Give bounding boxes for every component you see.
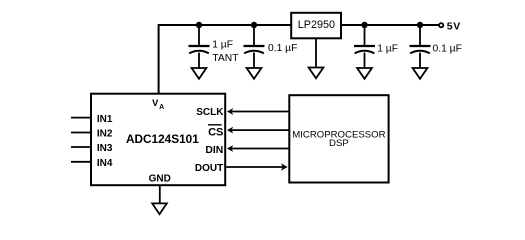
svg-text:IN2: IN2 [97,129,113,140]
svg-text:TANT: TANT [212,53,239,64]
svg-text:0.1 µF: 0.1 µF [433,43,462,54]
svg-text:ADC124S101: ADC124S101 [126,132,199,146]
svg-text:A: A [159,104,164,111]
svg-text:0.1 µF: 0.1 µF [268,43,297,54]
svg-text:IN4: IN4 [97,158,113,169]
svg-text:LP2950: LP2950 [298,19,335,31]
svg-text:5V: 5V [447,21,461,33]
svg-text:IN3: IN3 [97,143,113,154]
svg-text:1 µF: 1 µF [377,43,398,54]
svg-text:IN1: IN1 [97,114,113,125]
svg-text:DIN: DIN [205,145,223,156]
svg-text:CS: CS [208,127,223,139]
svg-text:DOUT: DOUT [195,163,223,174]
svg-text:V: V [152,98,159,108]
svg-text:GND: GND [149,173,171,184]
svg-text:SCLK: SCLK [196,107,224,118]
svg-text:1 µF: 1 µF [212,39,233,50]
svg-text:DSP: DSP [329,138,349,149]
